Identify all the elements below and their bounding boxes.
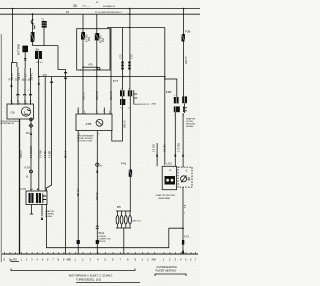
junction y76.5 <box>39 76 165 78</box>
fuse K8 <box>95 33 100 40</box>
connector pair <box>31 20 34 24</box>
R5 ladder top <box>116 210 131 212</box>
wire x65.6 <box>65 70 67 255</box>
bus line 15 <box>0 13 200 15</box>
R5 ladder bottom <box>116 227 131 229</box>
junction <box>12 8 14 10</box>
wire x65.6 connector <box>64 72 67 79</box>
wire x58 down <box>58 46 66 70</box>
bus join y45.6 <box>33 45 59 47</box>
U12 out wire <box>182 187 184 254</box>
ATB pin6 wire <box>96 132 98 254</box>
K80 coil <box>174 106 180 112</box>
ATB pin2 wire to rail <box>77 132 79 254</box>
K80 left contact wire <box>176 79 178 97</box>
G6 top pin ticks <box>11 103 30 105</box>
ATB bottom pins <box>78 131 112 132</box>
flow arrow <box>41 216 43 220</box>
inline connector <box>182 240 184 245</box>
bottom rail <box>2 253 198 255</box>
F36 wire <box>183 9 185 97</box>
R5 out wire <box>123 228 125 254</box>
wire drop x12.6 <box>12 9 14 63</box>
connector 470 <box>77 240 80 244</box>
connector mark <box>24 59 26 60</box>
K79 bottom stubs <box>31 205 33 215</box>
rail ticks and numbers <box>4 258 197 262</box>
wires to ATB <box>82 67 84 114</box>
wire box2 down <box>38 59 40 77</box>
box2 <box>35 51 42 59</box>
connector marks <box>128 62 130 70</box>
K80 feed stub <box>165 78 177 80</box>
B+ terminal <box>30 118 33 121</box>
wire to G6 pin4 <box>30 68 32 104</box>
wire x111 from line3 <box>110 28 112 115</box>
K79 element1 <box>29 193 34 203</box>
wire <box>43 28 45 46</box>
U12 dashed box <box>178 167 192 187</box>
flow arrow <box>10 83 12 87</box>
junction dots above G6 <box>11 100 12 101</box>
B+ wire down <box>30 119 32 191</box>
left end bracket <box>11 260 19 262</box>
U12 inner element <box>165 176 176 185</box>
K80 right contact <box>182 96 187 103</box>
ring terminal <box>96 163 99 166</box>
ATB circle <box>96 119 103 126</box>
K79 aux <box>43 194 46 204</box>
flow arrow <box>38 81 40 85</box>
battery box <box>22 46 28 53</box>
wire drop x32.5 <box>32 14 34 32</box>
F36 fuse <box>182 34 185 42</box>
wire x38.8 <box>38 77 40 192</box>
connector on pin6 wire <box>96 240 99 244</box>
battery wire down <box>24 52 26 68</box>
connector mark <box>50 82 53 83</box>
K70 terminal <box>30 170 33 173</box>
K79 element2 <box>36 193 41 203</box>
K79 block <box>26 191 47 205</box>
K79 pin dots <box>30 189 31 190</box>
heavy battery wire <box>19 119 21 254</box>
right bracket <box>155 274 186 276</box>
pin bridge <box>83 66 97 68</box>
wire line3 <box>107 27 165 29</box>
B+ flow arrow <box>30 132 32 136</box>
ATB top pins <box>78 108 110 115</box>
bus line 30 <box>0 8 200 10</box>
K80 aux marks <box>183 106 186 112</box>
wire x45.2 <box>44 77 46 192</box>
connector 5114 mark <box>96 226 99 228</box>
K80 contact out <box>184 103 186 113</box>
scan noise <box>0 0 1 1</box>
connector marks <box>121 62 123 70</box>
wire to G6 pin3 <box>24 68 26 104</box>
F41 wire <box>129 96 131 211</box>
wire to G6 pin2 <box>17 67 19 104</box>
route bridge <box>47 205 184 248</box>
K77 wire right <box>129 9 131 91</box>
fuse feed wires <box>82 14 84 32</box>
engine bay bracket <box>11 269 135 271</box>
thermo switch <box>181 176 187 182</box>
ground arrow <box>182 249 185 253</box>
wire <box>32 42 34 46</box>
U12 feed mid <box>174 153 176 157</box>
K77 pin stubs <box>121 96 123 99</box>
ATB box <box>76 114 112 131</box>
K77 wire left <box>121 28 123 91</box>
K77 aux marks <box>134 90 137 104</box>
bridge <box>11 63 17 67</box>
line3 corner wire down <box>164 28 166 166</box>
wire to G6 pin1 <box>10 67 12 104</box>
K80 coil out <box>174 112 176 166</box>
connector box <box>42 21 47 28</box>
U12 feed right <box>182 153 184 157</box>
fuse out wires <box>82 40 84 68</box>
caption underline <box>76 282 140 284</box>
flow arrow <box>96 169 98 173</box>
connector circle <box>98 67 100 69</box>
fusebox outline <box>77 29 110 70</box>
K80 left contact <box>174 97 179 103</box>
connector marks <box>17 94 32 95</box>
F41 fuse <box>129 170 132 177</box>
page edge shadow <box>0 34 2 262</box>
alternator G6 box <box>7 104 34 119</box>
fuse F <box>31 32 35 42</box>
fuse K7 <box>81 32 85 40</box>
K77 coil <box>120 99 125 105</box>
wire x51.6 <box>47 77 52 192</box>
R5 elements <box>116 211 131 228</box>
U12 feed left <box>156 143 158 166</box>
diamond connector <box>29 124 33 128</box>
U12 solid box <box>162 166 176 189</box>
coil to ATB jog <box>112 105 123 141</box>
alternator circle <box>21 107 30 116</box>
K77 contact right <box>128 90 132 96</box>
K77 contact left <box>120 90 125 96</box>
